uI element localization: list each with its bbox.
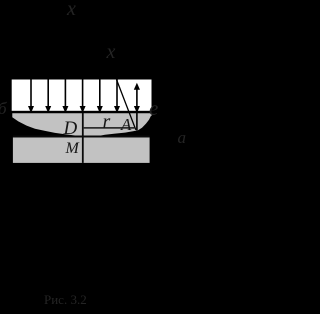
r measurement line [84, 127, 135, 128]
down arrow 2 [45, 80, 51, 114]
faint label left edge (б) [0, 100, 7, 117]
plate top surface line [13, 136, 150, 138]
lens body (gray, flat top, convex bottom) [12, 113, 151, 136]
faint label far right (а) [178, 129, 187, 146]
down arrow 5 [97, 80, 103, 114]
label D [64, 119, 78, 138]
plate M (gray slab) [13, 137, 150, 163]
faint label ray (х) [107, 42, 116, 62]
down arrow 3 [62, 80, 68, 114]
label A [121, 116, 131, 133]
down arrow 4 [80, 80, 86, 114]
axis line (vertical through contact point) [82, 113, 84, 163]
faint label right edge (е) [149, 98, 158, 119]
faint label top (х) [67, 0, 76, 19]
page background [0, 0, 193, 314]
caption [44, 293, 87, 306]
down arrow 1 [28, 80, 34, 114]
down arrow 6 [114, 80, 120, 114]
label r [103, 112, 111, 132]
reflected ray: shaft with up head at top and down head at baseline [134, 83, 140, 131]
label M [66, 141, 79, 157]
incident ray (diagonal) [117, 80, 136, 130]
load box (white) [12, 80, 152, 111]
